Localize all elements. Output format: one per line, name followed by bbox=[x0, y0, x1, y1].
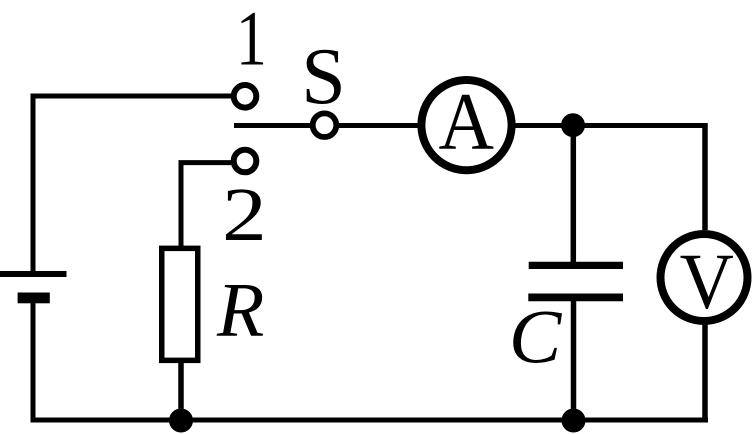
svg-text:1: 1 bbox=[236, 0, 267, 82]
wire: junction down to capacitor top plate bbox=[571, 125, 577, 262]
wire: capacitor bottom plate down to bottom rail bbox=[571, 297, 577, 420]
wire: left vertical from battery - plate down to bottom rail bbox=[31, 303, 36, 423]
wire: top-right vertical down to voltmeter bbox=[702, 123, 708, 230]
capacitor C top plate bbox=[529, 262, 623, 269]
switch contact terminal 2 bbox=[234, 150, 257, 173]
battery B1 long plate (+) bbox=[0, 271, 67, 277]
wire: from contact 2 left then down to resistor R bbox=[181, 163, 231, 246]
wire: top-left horizontal from battery branch to contact 1 bbox=[31, 94, 232, 99]
wire: switch pole to ammeter bbox=[339, 123, 418, 128]
node: junction on bottom rail below capacitor bbox=[562, 409, 586, 433]
battery B1 short thick plate (-) bbox=[18, 293, 50, 304]
node: junction above capacitor bbox=[561, 113, 585, 137]
wire: left vertical from top corner down to battery + plate bbox=[31, 94, 36, 273]
wire: ammeter to top-right corner through node bbox=[516, 123, 706, 128]
wire: bottom rail bbox=[31, 418, 709, 423]
resistor R body bbox=[162, 248, 198, 360]
switch contact terminal 1 bbox=[234, 85, 257, 108]
node: junction on bottom rail below resistor bbox=[169, 409, 193, 433]
wire: resistor bottom to bottom rail bbox=[178, 360, 184, 420]
ammeter A body bbox=[421, 80, 511, 170]
capacitor C bottom plate bbox=[528, 294, 623, 302]
voltmeter V body bbox=[661, 234, 748, 321]
switch S pole terminal bbox=[313, 113, 337, 137]
wire: voltmeter bottom down to bottom rail bbox=[702, 321, 708, 420]
switch S lever bar bbox=[234, 123, 310, 128]
svg-text:A: A bbox=[439, 76, 495, 167]
svg-text:V: V bbox=[680, 239, 734, 326]
svg-text:R: R bbox=[216, 266, 264, 352]
svg-text:2: 2 bbox=[222, 173, 267, 257]
svg-text:S: S bbox=[301, 33, 346, 121]
svg-text:C: C bbox=[509, 295, 563, 379]
